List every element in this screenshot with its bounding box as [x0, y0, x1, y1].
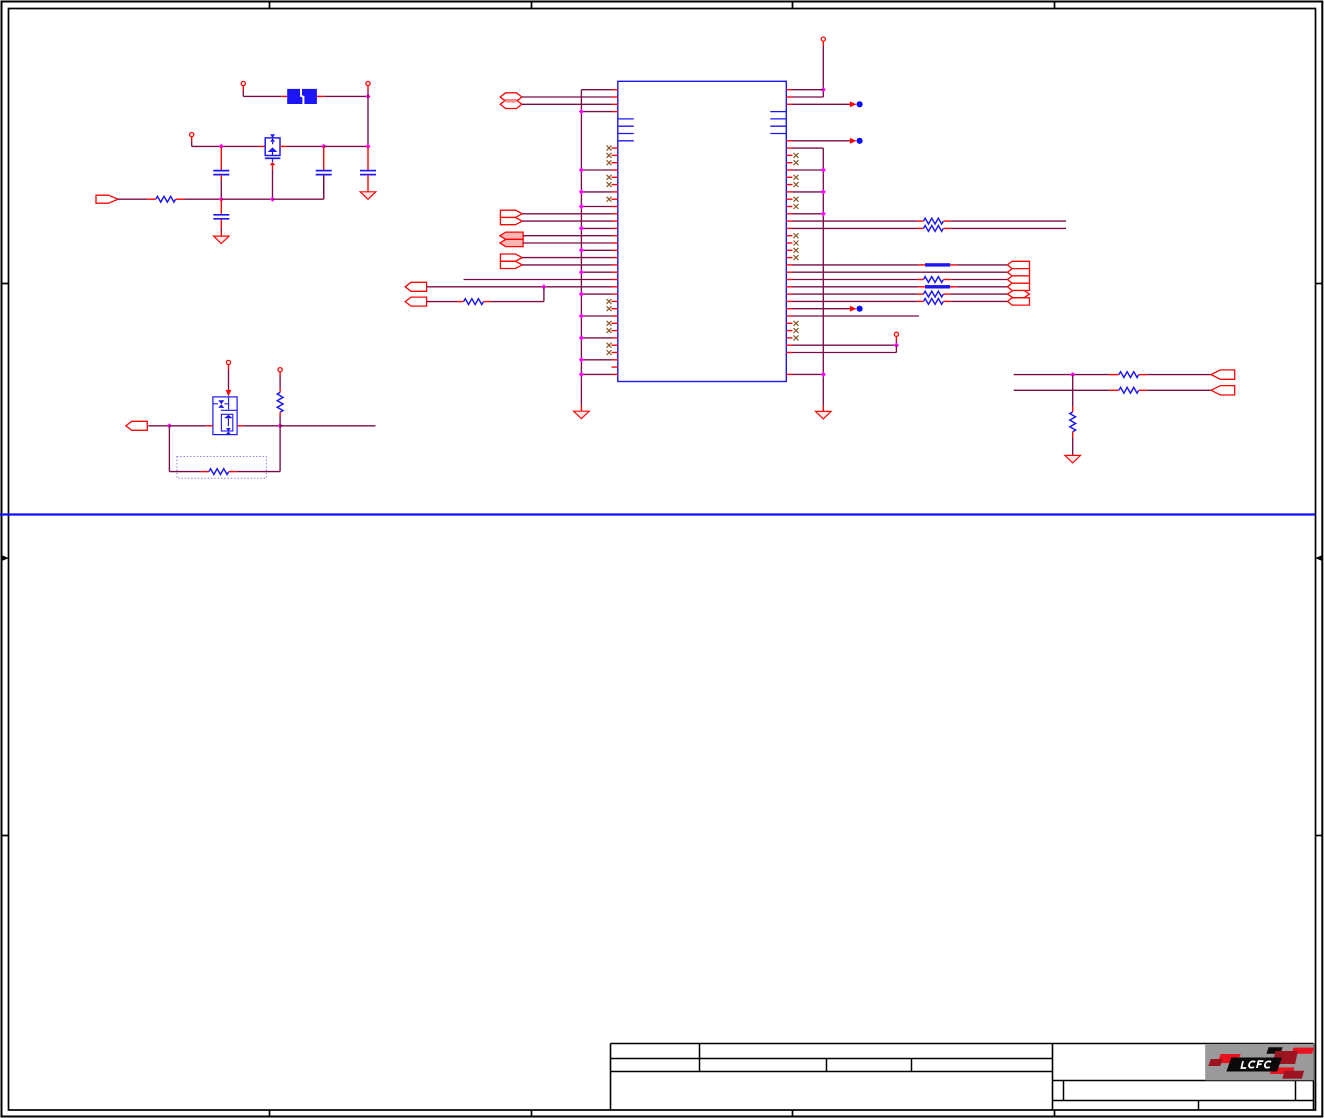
- junction C2 top: [321, 144, 326, 149]
- junction node V1: [365, 94, 370, 99]
- wire R3 right: [944, 220, 1067, 222]
- wire row28 to resistor: [793, 293, 924, 295]
- title block table: [611, 1044, 1314, 1111]
- junction Q1 left: [167, 423, 172, 428]
- input port G2: [1008, 269, 1030, 276]
- capacitor C1 bottom lead: [220, 175, 222, 199]
- wire B1 to IC: [522, 213, 611, 215]
- capacitor C1: [213, 171, 229, 175]
- input port C1: [500, 232, 523, 239]
- input port C2: [500, 239, 523, 246]
- input port J: [126, 421, 147, 430]
- test point row 7: [850, 138, 863, 144]
- junction bus1 row 31: [579, 313, 584, 318]
- wire bus1 to pin row 28: [581, 293, 611, 295]
- wire L1 tap down to R10: [1072, 375, 1074, 412]
- wire row25 to port: [793, 271, 1008, 273]
- resistor R10: [1070, 412, 1076, 432]
- ferrite bead FB1 right lead: [317, 95, 325, 97]
- test point row 30: [850, 306, 863, 312]
- wire A1 to IC: [522, 96, 612, 98]
- frame zone ticks left and right: [2, 284, 1323, 836]
- wire resistor row28 to port: [944, 293, 1008, 295]
- junction bus1 row 16: [579, 204, 584, 209]
- wire C1 node to D1 source node: [221, 198, 272, 200]
- no-connect left pin row 15: [607, 197, 612, 202]
- wire row24 to bead: [793, 264, 926, 266]
- junction bus1 row 14: [579, 189, 584, 194]
- output port B1: [500, 210, 522, 217]
- no-connect right pin row 34: [794, 335, 799, 340]
- no-connect left pin row 13: [607, 182, 612, 187]
- wire C2 node to V2: [324, 145, 368, 147]
- wire net L1: [1014, 374, 1119, 376]
- no-connect left pin row 12: [607, 175, 612, 180]
- power pin P6: [226, 360, 230, 364]
- IC U1 body: [618, 81, 787, 381]
- power pin P1: [241, 81, 245, 85]
- wire node to right: [280, 425, 375, 427]
- output port D1: [500, 254, 522, 261]
- wire bus1 to pin row 37: [581, 359, 611, 361]
- wire Q1 left down: [169, 426, 208, 472]
- wire bus1 to pin row 14: [581, 191, 611, 193]
- bidir port G5: [1008, 291, 1030, 298]
- no-connect left pin row 8: [607, 146, 612, 151]
- wire bus1 to pin row 31: [581, 315, 611, 317]
- no-connect right pin row 16: [794, 204, 799, 209]
- wire R11 down: [279, 412, 281, 426]
- junction bus1 row 28: [579, 292, 584, 297]
- IC U1 right pin stubs: [786, 90, 792, 375]
- junction C1 top: [219, 144, 224, 149]
- left bus wire: [580, 90, 582, 411]
- wire C2 to IC: [523, 242, 611, 244]
- wire row35 to pullup: [793, 344, 897, 346]
- wire R4 right: [944, 227, 1067, 229]
- no-connect right pin row 32: [794, 321, 799, 326]
- wire bus1 to pin row 19: [581, 227, 611, 229]
- resistor R12: [209, 469, 229, 475]
- wire bus1 to pin row 22: [581, 249, 611, 251]
- bidir port A1: [500, 93, 522, 101]
- bidir port A2: [500, 100, 522, 108]
- junction node V2: [365, 144, 370, 149]
- input port G4: [1008, 283, 1030, 290]
- junction bus2 row 17: [821, 211, 826, 216]
- wire F to R2: [427, 301, 464, 303]
- wire D1 to C2 node: [287, 145, 324, 147]
- junction bus2 row 39: [821, 372, 826, 377]
- power pin P4: [821, 37, 825, 41]
- wire bus2 to pin row 14: [793, 191, 824, 193]
- junction bus1 row 25: [579, 270, 584, 275]
- output port B2: [500, 218, 522, 225]
- wire P3 down: [192, 137, 259, 147]
- wire R9 to port H2: [1139, 389, 1211, 391]
- right bus wire: [822, 148, 824, 411]
- resistor R2: [464, 299, 484, 305]
- wire A2 to IC: [522, 103, 612, 105]
- IC U1 left pin stubs: [612, 90, 618, 375]
- wire row26 to resistor: [793, 279, 924, 281]
- IC U1 left inner bus pins: [618, 119, 634, 141]
- wire R12 to right up: [229, 426, 280, 472]
- resistor R9: [1119, 387, 1139, 393]
- wire to Q1 left lead: [169, 425, 213, 427]
- capacitor C4 top lead: [220, 199, 222, 214]
- junction pullup row35: [894, 343, 899, 348]
- junction bus2 row 14: [821, 189, 826, 194]
- ferrite bead FB2: [925, 263, 950, 266]
- wire bead row24 to port: [950, 264, 1007, 266]
- ferrite bead FB1: [287, 89, 317, 104]
- junction bus1 row 22: [579, 248, 584, 253]
- wire bus1 to pin row 34: [581, 337, 611, 339]
- wire P4 down: [822, 41, 824, 97]
- wire row18 to R3: [793, 220, 924, 222]
- junction bus1 row 3: [579, 109, 584, 114]
- wire net L2: [1014, 389, 1119, 391]
- power pin P3: [190, 133, 194, 137]
- wire row27 to bead: [793, 286, 926, 288]
- junction row27 resistor tap: [541, 284, 546, 289]
- wire Q1 to R11 node: [244, 425, 281, 427]
- no-connect right pin row 20: [794, 233, 799, 238]
- test point row 2: [850, 101, 863, 107]
- wire bead row27 to port: [950, 286, 1007, 288]
- wire R1 to C1 node: [184, 198, 221, 200]
- wire row19 to R4: [793, 227, 924, 229]
- frame mid-left arrow marker: [2, 555, 9, 561]
- junction bus1 row 37: [579, 357, 584, 362]
- resistor R1 right lead: [176, 198, 185, 200]
- diode-FET D1 left lead: [259, 145, 266, 147]
- resistor R7: [924, 299, 944, 305]
- wire J to Q1 node: [148, 425, 169, 427]
- wire P7 down to R11: [279, 372, 281, 393]
- input port G1: [1008, 261, 1030, 268]
- resistor R8: [1119, 372, 1139, 378]
- wire bus1 to pin row 3: [581, 111, 611, 113]
- output port D2: [500, 261, 522, 268]
- no-connect right pin row 12: [794, 175, 799, 180]
- junction Q1 right: [278, 423, 283, 428]
- no-connect left pin row 35: [607, 343, 612, 348]
- ground under C4: [214, 236, 230, 244]
- frame mid-right arrow marker: [1315, 555, 1322, 561]
- wire D2 to IC: [522, 264, 611, 266]
- capacitor C2 bottom lead: [323, 175, 325, 199]
- wire row30 to test point: [793, 308, 850, 310]
- capacitor C2 top lead: [323, 146, 325, 170]
- diode-FET D1 source arrow: [270, 162, 276, 199]
- FET Q1 body: [213, 397, 237, 435]
- no-connect right pin row 13: [794, 182, 799, 187]
- optional resistor box: [177, 457, 266, 479]
- wire row36 corner: [793, 345, 897, 352]
- no-connect left pin row 32: [607, 321, 612, 326]
- junction bus1 row 11: [579, 167, 584, 172]
- wire bus1 top to pin row0: [581, 89, 611, 91]
- diode-FET D1 right lead: [280, 145, 287, 147]
- capacitor C1 top lead: [220, 146, 222, 170]
- no-connect right pin row 22: [794, 248, 799, 253]
- junction bus2 row 0: [821, 87, 826, 92]
- wire R2 to row27 junction: [484, 287, 544, 302]
- wire bus1 to pin row 25: [581, 271, 611, 273]
- wire R8 to port H1: [1139, 374, 1211, 376]
- page divider line: [0, 513, 1315, 515]
- junction bus1 row 19: [579, 226, 584, 231]
- wire bus1 to pin row 16: [581, 206, 611, 208]
- Q1 right lead: [237, 425, 244, 427]
- wire bus1 to pin row 11: [581, 169, 611, 171]
- junction L1 tap: [1070, 372, 1075, 377]
- wire E to IC: [427, 286, 612, 288]
- capacitor C3: [360, 171, 376, 175]
- wire bus1 to pin row 39: [581, 373, 611, 375]
- junction C1 bottom: [219, 197, 224, 202]
- ground under left bus: [574, 411, 590, 419]
- junction bus1 row 39: [579, 372, 584, 377]
- no-connect left pin row 36: [607, 350, 612, 355]
- stub wire row 26: [464, 279, 612, 281]
- input port H1: [1211, 370, 1235, 379]
- no-connect right pin row 10: [794, 160, 799, 165]
- FET Q1 gate arrow: [226, 390, 232, 397]
- no-connect left pin row 30: [607, 306, 612, 311]
- capacitor C2: [316, 171, 332, 175]
- wire bus2 to pin row 17: [793, 213, 824, 215]
- wire bus2 to pin row 39: [793, 373, 824, 375]
- no-connect right pin row 21: [794, 241, 799, 246]
- ferrite bead FB1 left lead: [281, 95, 287, 97]
- input port G6: [1008, 298, 1030, 305]
- wire resistor row29 to port: [944, 300, 1008, 302]
- wire IN1 to R1: [118, 198, 147, 200]
- resistor R11: [277, 392, 283, 412]
- wire IC row0 to bus2: [793, 89, 824, 91]
- port A overlap band: [506, 100, 517, 103]
- no-connect right pin row 33: [794, 328, 799, 333]
- no-connect left pin row 33: [607, 328, 612, 333]
- stub wire row31: [793, 315, 919, 317]
- input port G3: [1008, 276, 1030, 283]
- junction D1 source bottom: [270, 197, 275, 202]
- diode-FET D1 body: [265, 134, 281, 162]
- no-connect left pin row 10: [607, 160, 612, 165]
- power pin P5: [894, 332, 898, 336]
- wire D1 to IC: [522, 257, 611, 259]
- wire P2 down to V2: [367, 86, 369, 147]
- no-connect right pin row 9: [794, 153, 799, 158]
- wire R10 to ground: [1072, 432, 1074, 456]
- no-connect right pin row 23: [794, 255, 799, 260]
- capacitor C4 bottom lead: [220, 219, 222, 236]
- resistor R1 left lead: [147, 198, 156, 200]
- capacitor C3 bottom lead: [367, 175, 369, 192]
- power pin P2: [366, 81, 370, 85]
- ferrite bead FB3: [925, 285, 950, 288]
- resistor R1: [156, 196, 176, 202]
- resistor R3: [924, 218, 944, 224]
- wire row2 to test point: [793, 103, 850, 105]
- capacitor C4: [213, 215, 229, 219]
- input port F: [405, 297, 426, 306]
- ground under right bus: [816, 411, 832, 419]
- wire P5 down: [895, 336, 897, 345]
- wire B2 to IC: [522, 220, 611, 222]
- IC U1 right inner bus pins: [770, 112, 786, 134]
- wire resistor row26 to port: [944, 279, 1008, 281]
- no-connect left pin row 29: [607, 299, 612, 304]
- wire FB1 to node V1: [325, 95, 368, 97]
- power pin P7: [278, 368, 282, 372]
- LCFC logo: [1205, 1044, 1314, 1080]
- wire bus2 to pin row 11: [793, 169, 824, 171]
- wire P1 down: [243, 86, 281, 97]
- no-connect left pin row 9: [607, 153, 612, 158]
- resistor R4: [924, 226, 944, 232]
- wire to C2 bottom corner: [273, 175, 324, 199]
- junction bus2 row 11: [821, 167, 826, 172]
- wire row29 to resistor: [793, 300, 924, 302]
- wire C1 to IC: [523, 235, 611, 237]
- wire IC row8 to bus2: [793, 147, 824, 149]
- resistor R5: [924, 277, 944, 283]
- ground under C3: [360, 192, 376, 200]
- input port E: [405, 282, 426, 291]
- wire IC row1 to bus2: [793, 96, 824, 98]
- capacitor C3 top lead: [367, 146, 369, 170]
- input port H2: [1211, 386, 1235, 395]
- frame zone ticks top and bottom: [270, 2, 1055, 1117]
- wire P6 down: [228, 365, 230, 395]
- ground under R10: [1065, 455, 1081, 463]
- input port IN1: [96, 195, 118, 203]
- no-connect right pin row 15: [794, 197, 799, 202]
- junction bus1 row 34: [579, 335, 584, 340]
- wire row7 to test point: [793, 140, 850, 142]
- resistor R6: [924, 291, 944, 297]
